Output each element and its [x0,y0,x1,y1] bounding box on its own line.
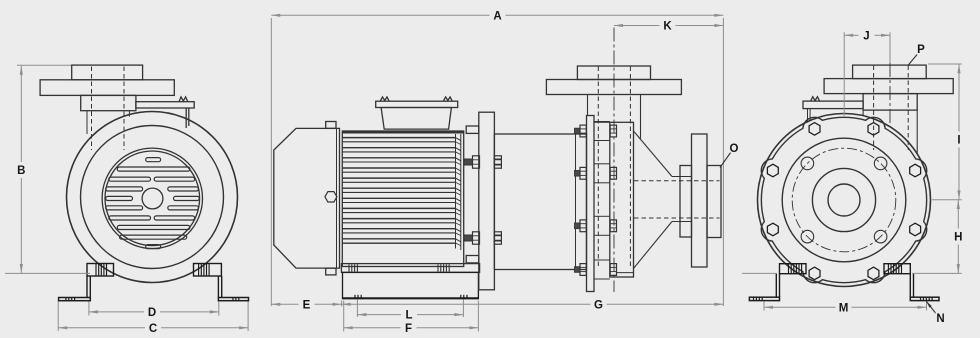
motor rail slots [349,264,449,271]
svg-text:N: N [936,313,944,325]
casing stud 3 [575,216,617,235]
svg-text:P: P [917,44,925,56]
left view right foot leg [218,276,221,298]
suction bore hidden lines [598,67,630,269]
left view right foot block [194,264,222,277]
svg-text:E: E [303,299,311,311]
dimension A [271,10,723,22]
right view spigot circle [782,138,906,262]
motor base bottom edge [343,297,479,299]
right suction neck [863,94,917,111]
motor foot rail [341,264,479,273]
extension lines F [344,301,479,332]
terminal box screws [380,97,452,101]
label O with leader [720,143,739,168]
pump casing band [610,122,634,277]
fan cover top tab [326,122,336,129]
right view inner circle [812,168,875,231]
casing stud 1 [575,122,617,141]
extension line foot level right [912,272,962,274]
dimension J [844,30,890,42]
right support leg [808,109,811,122]
left view left foot block [87,264,114,277]
svg-text:I: I [957,135,960,147]
extension line B top [17,64,71,66]
extension lines M [764,302,927,311]
right view casing bolts [767,123,920,280]
suction top block [577,66,650,80]
discharge back ring [707,166,721,238]
casing cone [634,131,673,268]
right view outer circle [758,114,931,287]
extension line G left [341,301,343,307]
label P with leader [908,44,925,65]
left view pipe edge lines [87,111,129,134]
left view left foot leg [87,276,90,298]
casing top joint line [594,121,610,123]
right view left foot block [780,264,807,274]
suction flange plate [546,80,681,95]
extension line I top [928,63,962,65]
left view support lug [179,97,188,102]
motor fan cover [274,128,340,268]
dimension G [342,299,724,311]
dimension B [17,66,25,273]
lantern bolt upper [464,156,501,168]
lantern bottom tab [466,256,479,263]
discharge hub ring [680,166,692,238]
terminal box body [381,108,451,130]
discharge bore hidden lines [634,181,720,218]
right suction centerline [889,40,891,125]
casing stud 2 [575,164,617,183]
svg-text:D: D [148,307,156,319]
extension line J right [889,32,891,63]
lantern plate [479,112,495,290]
discharge flange [692,134,708,267]
motor base mounting holes [355,295,467,299]
terminal box top plate [376,101,458,107]
right support lug [811,97,820,101]
extension line center right [932,199,962,201]
suction centerline [613,28,615,293]
right support bar [803,101,863,109]
left view discharge flange upper block [72,65,143,80]
svg-text:J: J [863,30,869,42]
fan cover bottom tab [326,268,336,275]
motor bottom band [342,242,455,244]
svg-text:C: C [149,323,157,333]
motor fin end bevels [456,134,461,250]
motor top edge band [342,131,463,134]
extension line foot level left [5,272,90,274]
right view right base plate [910,297,939,300]
svg-text:L: L [405,310,412,322]
svg-text:A: A [493,10,501,22]
left view fan grille rim [102,148,202,248]
svg-text:O: O [730,143,739,155]
right view right plate holes [921,298,933,301]
extension line foot level right2 [742,272,777,274]
svg-text:F: F [405,323,412,333]
svg-text:M: M [839,302,849,314]
extension line J left [843,32,845,116]
right view gland holes [801,157,887,243]
left view discharge neck block [81,95,136,110]
left view discharge flange plate [40,80,174,96]
casing stud 4 [575,260,617,279]
svg-text:K: K [663,21,672,33]
right suction flange plate [824,79,953,94]
dimension K [614,21,723,33]
label N with leader [926,301,944,325]
dimension C [58,323,248,335]
extension line A-K-G right [722,18,724,306]
lantern top tab [466,126,479,133]
extension lines D [89,302,219,316]
left view casing outer circle [67,112,238,283]
dimension I [957,64,960,199]
motor body outline [342,131,463,267]
svg-text:G: G [594,299,603,311]
right view lobed casing contour [761,117,926,282]
dimension L [357,310,463,322]
right view right foot block [884,264,910,274]
casing bottom step [617,272,634,274]
motor cooling fins [342,138,455,243]
svg-text:H: H [954,232,962,244]
svg-text:B: B [17,165,25,177]
left view grille slots [106,158,200,249]
right suction pipe lines [863,110,917,154]
left view left base plate [59,298,91,301]
left view support leg [186,108,189,128]
pump adapter cylinder [494,134,586,270]
lantern bolt lower [464,232,501,244]
suction pipe [588,95,641,139]
motor base block [343,272,479,298]
dimension M [764,302,927,314]
right suction hidden lines [874,66,909,151]
left view right base plate [218,298,248,301]
discharge pipe walls [672,177,692,222]
right view bolt circle centerline [792,148,896,252]
left view right plate holes [233,298,239,301]
dimension D [89,307,219,319]
left view discharge pipe hidden lines [92,67,125,151]
right view left foot leg [776,274,779,298]
dimension H [954,200,962,273]
pump backplate [587,116,595,292]
left view left plate holes [66,298,75,301]
dimension F [344,323,479,335]
left view casing inner ring [81,126,224,269]
extension line A left [270,18,272,306]
right view left plate holes [754,298,763,301]
right suction top block [853,65,927,79]
right view right foot leg [910,274,913,298]
right view left base plate [749,297,779,300]
adapter ring line [575,134,577,270]
left view hub circle [142,188,163,209]
extension lines C [58,302,248,332]
extension lines L [357,300,463,318]
dimension E [271,299,341,311]
right view shaft circle [828,184,860,216]
left view support bar [136,102,194,108]
fan cover center plug [325,192,337,202]
